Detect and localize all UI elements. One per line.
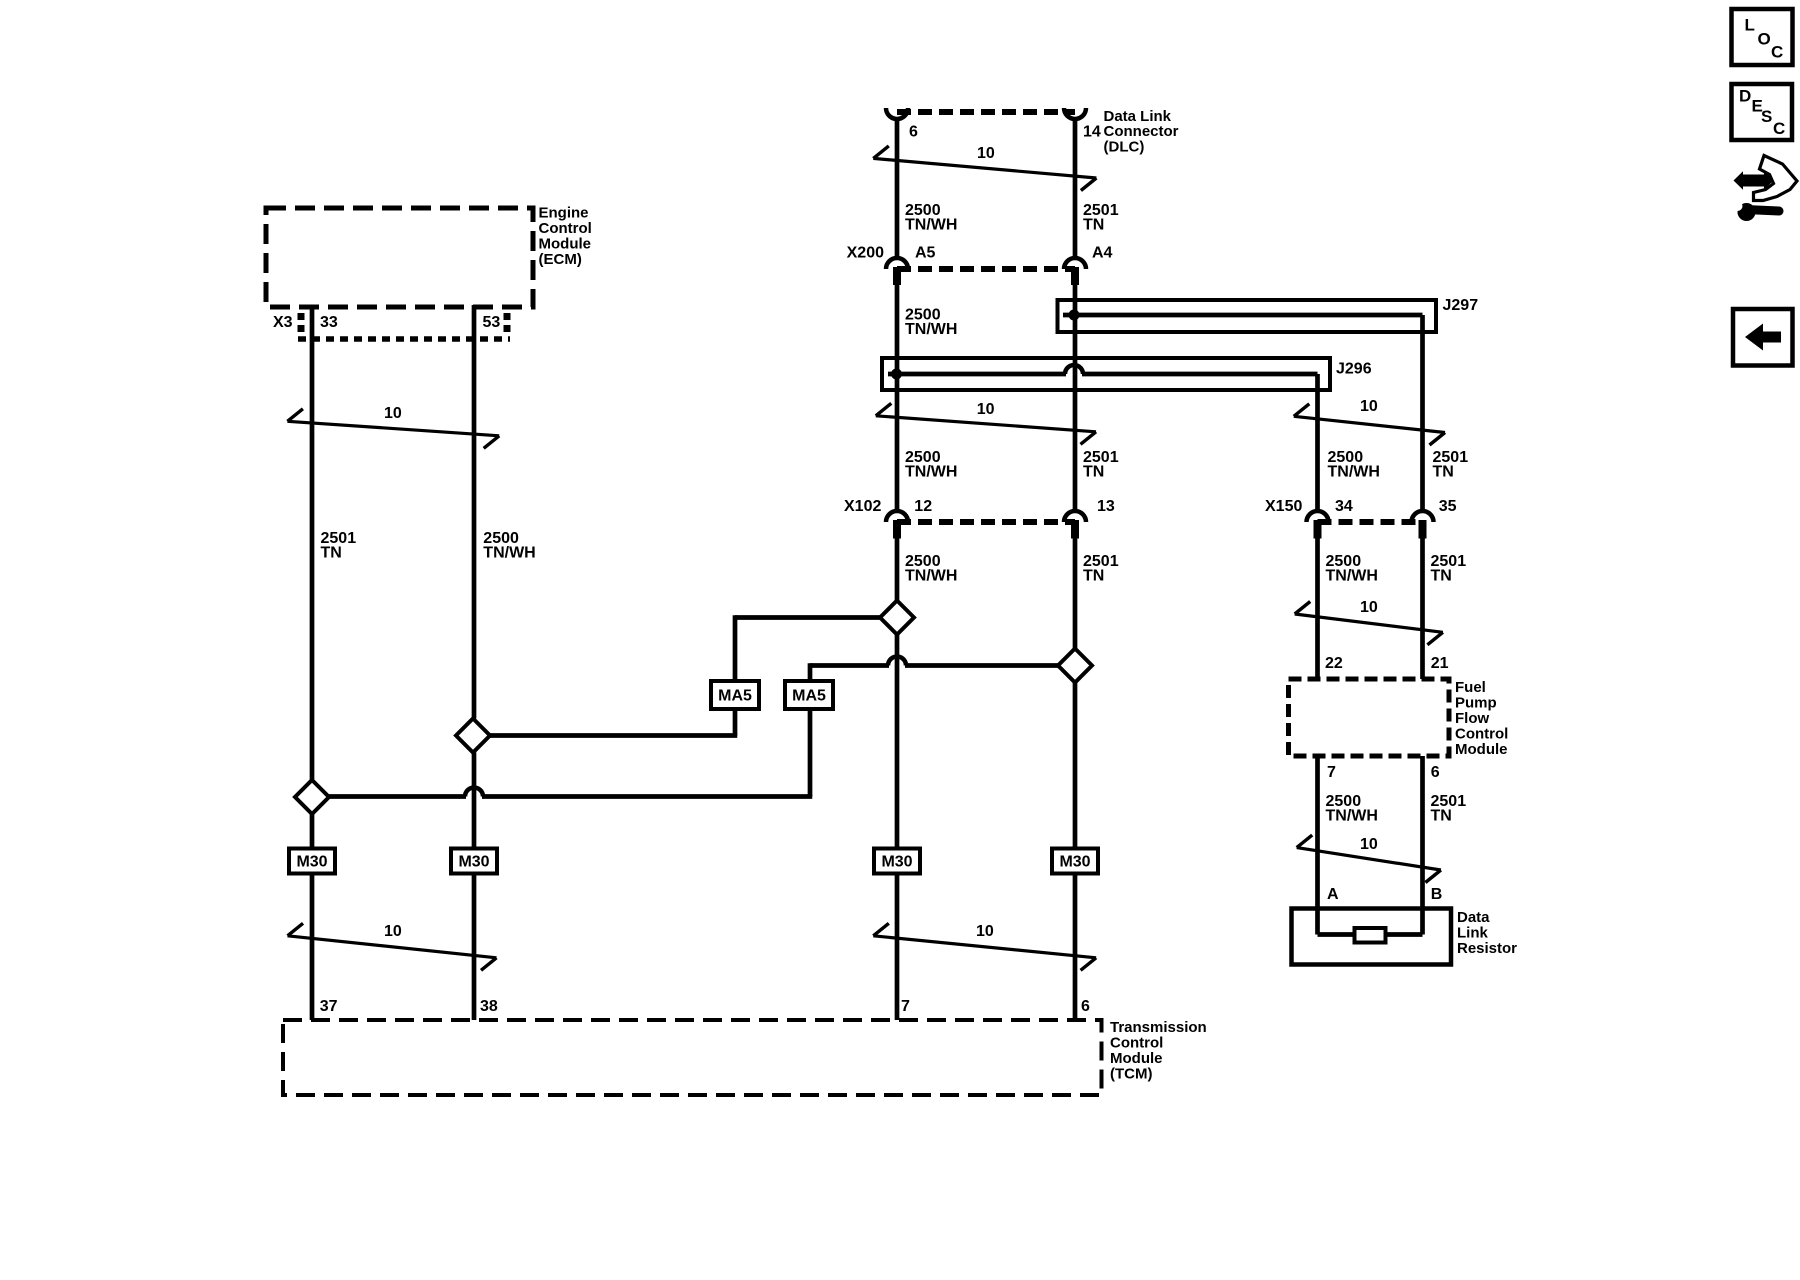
label X200 [847,245,884,262]
wire 2501 TN from ECM pin 33 down [310,305,315,780]
icon: wiring tool (arrows and wrench) [1733,156,1798,222]
svg-text:X150: X150 [1265,498,1302,515]
X150 terminal 35 [1412,511,1434,538]
module: Transmission Control Module box [283,1020,1102,1095]
svg-text:X102: X102 [844,498,881,515]
wire 2501 TN X150-35 to FPFCM 21 [1420,539,1425,680]
wire-gauge crossing arrow below DLC [873,145,1096,191]
wire col2 M30 to TCM 38 [472,874,477,1021]
svg-text:TN/WH: TN/WH [483,545,535,562]
icon: back arrow button [1733,309,1793,366]
svg-text:33: 33 [320,314,338,331]
svg-text:TN: TN [1431,808,1452,825]
X150 terminal 34 [1307,511,1329,538]
wire label 2501 TN (col6 row4) [1431,553,1467,585]
svg-text:10: 10 [1360,599,1378,616]
svg-text:M30: M30 [458,854,489,871]
svg-text:TN/WH: TN/WH [1326,808,1378,825]
svg-text:10: 10 [976,923,994,940]
wire-gauge crossing arrow FPFCM to resistor [1297,835,1441,882]
svg-text:10: 10 [1360,398,1378,415]
svg-text:22: 22 [1325,655,1343,672]
pin 34 label [1335,498,1353,515]
svg-text:A4: A4 [1092,245,1113,262]
svg-text:TN: TN [321,545,342,562]
connector M30 col2 [451,849,497,874]
svg-text:37: 37 [320,998,338,1015]
wire 2500 TN/WH X150-34 to FPFCM 22 [1315,539,1320,680]
wire-gauge crossing arrow above TCM right [873,923,1096,970]
splice pack J296 box [882,358,1330,390]
pin 6 label (TCM) [1081,998,1090,1015]
svg-text:TN: TN [1083,217,1104,234]
svg-text:C: C [1773,119,1785,138]
icon: DESC button [1732,84,1793,140]
component: Data Link Resistor box [1292,909,1452,965]
svg-text:J297: J297 [1443,297,1479,314]
label J297 [1443,297,1479,314]
pin 6 label [909,124,918,141]
svg-text:TN/WH: TN/WH [1326,568,1378,585]
wire label 2501 TN (col6 row5) [1431,793,1467,825]
svg-text:6: 6 [1081,998,1090,1015]
svg-text:TN: TN [1431,568,1452,585]
DLC terminal pin 6 [886,108,908,119]
pin 37 label [320,998,338,1015]
connector X200 dashed line [897,266,1075,272]
label: Data Link Connector (DLC) [1104,108,1179,155]
wire 2500 TN/WH from ECM pin 53 down [472,305,477,719]
svg-text:A5: A5 [915,245,936,262]
svg-text:10: 10 [384,405,402,422]
wire label 2501 TN (col6 row3) [1433,449,1469,481]
wire 2500 TN/WH X200 to X102 [895,285,900,511]
svg-text:Module: Module [1455,741,1508,758]
wire label 2500 TN/WH (col5 row4) [1326,553,1378,585]
svg-text:C: C [1771,43,1783,62]
svg-text:S: S [1761,107,1772,126]
svg-text:Fuel: Fuel [1455,679,1486,696]
pin 6 label (FPFCM) [1431,764,1440,781]
wire col3 M30 to TCM 7 [895,874,900,1021]
wire col4 M30 to TCM 6 [1073,874,1078,1021]
wire col1 M30 to TCM 37 [310,874,315,1021]
pin 7 label (TCM) [901,998,910,1015]
svg-text:TN: TN [1083,464,1104,481]
svg-text:D: D [1739,87,1751,106]
pin A4 label [1092,245,1113,262]
svg-text:TN/WH: TN/WH [905,568,957,585]
pin B label [1431,886,1443,903]
wire-gauge crossing arrow J to X150 [1294,398,1445,445]
connector X150 dashed line [1318,519,1423,525]
wire col2 splice to M30 [472,753,477,849]
wire col3 splice to M30 [895,635,900,849]
wire label 2500 TN/WH (col3 row2) [905,307,957,339]
splice diamond on col1 [295,780,329,814]
svg-text:Control: Control [1110,1035,1163,1052]
splice diamond on col2 [456,719,490,753]
wire 2500 TN/WH J296 to X150 [1315,374,1320,511]
connector X102 dashed line [897,519,1075,525]
wire col4 splice to M30 [1073,683,1078,849]
wire 2500 TN/WH FPFCM-7 to resistor A [1315,756,1320,935]
svg-text:TN/WH: TN/WH [1328,464,1380,481]
splice diamond on col4 [1058,649,1092,683]
splice pack J297 box [1058,300,1437,332]
svg-text:35: 35 [1439,498,1457,515]
svg-text:Control: Control [1455,726,1508,743]
resistor element R [1355,928,1386,943]
svg-text:O: O [1758,30,1771,49]
wire 2501 TN DLC14 to X200 A4 [1073,118,1078,259]
svg-text:Pump: Pump [1455,695,1497,712]
wire-gauge crossing arrow X150 to FPFCM [1295,599,1443,645]
wire label 2501 TN (col4 row4) [1083,553,1119,585]
wire label 2501 TN (col4 row1) [1083,202,1119,234]
svg-text:TN/WH: TN/WH [905,217,957,234]
connector M30 col1 [289,849,335,874]
svg-text:(TCM): (TCM) [1110,1066,1152,1083]
svg-text:X200: X200 [847,245,884,262]
junction dot J297 [1069,310,1080,321]
svg-text:12: 12 [914,498,932,515]
svg-text:M30: M30 [1059,854,1090,871]
label X3 [273,314,293,331]
svg-text:Transmission: Transmission [1110,1019,1207,1036]
svg-text:7: 7 [901,998,910,1015]
svg-text:Resistor: Resistor [1457,940,1517,957]
wire 2501 TN X200 to X102 [1073,285,1078,511]
pin A5 label [915,245,936,262]
X102 terminal 12 [886,511,908,539]
connector M30 col4 [1052,849,1098,874]
svg-text:MA5: MA5 [792,688,826,705]
icon: LOC button [1732,9,1793,65]
wire label 2500 TN/WH (col3 row3) [905,449,957,481]
wire label 2500 TN/WH (col3 row4) [905,553,957,585]
link wire col3-splice to col2-splice via MA5 [490,615,880,735]
pin 35 label [1439,498,1457,515]
pin 14 label [1083,124,1101,141]
svg-text:13: 13 [1097,498,1115,515]
connector X3 band [298,313,510,339]
svg-text:(ECM): (ECM) [539,251,582,268]
pin 22 label [1325,655,1343,672]
svg-text:Module: Module [539,236,592,253]
pin 7 label (FPFCM) [1327,764,1336,781]
connector MA5 (left) [711,681,759,709]
wire-gauge crossing arrow X200 to X102 [876,401,1096,444]
label X150 [1265,498,1302,515]
pin A label [1327,886,1339,903]
svg-text:6: 6 [1431,764,1440,781]
junction dot J296 [891,369,902,380]
wire label 2500 TN/WH (col5 row3) [1328,449,1380,481]
label: Fuel Pump Flow Control Module [1455,679,1508,758]
module: Fuel Pump Flow Control Module box [1289,679,1450,756]
svg-text:J296: J296 [1336,361,1372,378]
wire-gauge crossing arrow below ECM [287,405,499,448]
svg-text:Module: Module [1110,1050,1163,1067]
pin 13 label [1097,498,1115,515]
svg-text:MA5: MA5 [718,688,752,705]
label: Engine Control Module (ECM) [539,205,592,269]
connector: Data Link Connector dashed line [897,109,1075,115]
X200 terminal A4 [1064,258,1086,285]
svg-text:Control: Control [539,220,592,237]
svg-text:10: 10 [977,401,995,418]
svg-text:Engine: Engine [539,205,589,222]
pin 33 [320,314,338,331]
connector M30 col3 [874,849,920,874]
wire 2501 TN FPFCM-6 to resistor B [1420,756,1425,935]
svg-text:A: A [1327,886,1339,903]
svg-text:(DLC): (DLC) [1104,138,1145,155]
wire 2501 TN J297 to X150 [1420,315,1425,511]
svg-text:X3: X3 [273,314,293,331]
wire label 2501 TN (left) [321,530,357,562]
splice pack J296 bus wire with hop [888,365,1318,374]
splice diamond on col3 [880,601,914,635]
svg-text:M30: M30 [296,854,327,871]
svg-text:Flow: Flow [1455,710,1489,727]
svg-text:14: 14 [1083,124,1101,141]
wire col1 splice to M30 [310,814,315,849]
svg-text:34: 34 [1335,498,1353,515]
wire 2500 TN/WH DLC6 to X200 A5 [895,118,900,259]
svg-text:B: B [1431,886,1443,903]
X102 terminal 13 [1064,511,1086,539]
svg-text:21: 21 [1431,655,1449,672]
svg-text:10: 10 [384,923,402,940]
svg-text:10: 10 [977,145,995,162]
wire label 2501 TN (col4 row3) [1083,449,1119,481]
label J296 [1336,361,1372,378]
module: Engine Control Module (ECM) box [266,208,533,307]
svg-text:7: 7 [1327,764,1336,781]
svg-text:TN: TN [1083,568,1104,585]
wire 2501 TN X102-13 down [1073,539,1078,649]
svg-text:TN: TN [1433,464,1454,481]
DLC terminal pin 14 [1064,108,1086,119]
wire label 2500 TN/WH (col5 row5) [1326,793,1378,825]
wire-gauge crossing arrow above TCM left [288,923,497,970]
pin 53 [483,314,501,331]
wire 2500 TN/WH X102-12 down [895,539,900,601]
svg-text:Link: Link [1457,925,1488,942]
pin 21 label [1431,655,1449,672]
label: Data Link Resistor [1457,909,1517,957]
resistor internal bus [1318,932,1423,937]
wire label 2500 TN/WH (left) [483,530,535,562]
label X102 [844,498,881,515]
X200 terminal A5 [886,258,908,285]
svg-text:6: 6 [909,124,918,141]
connector MA5 (right) [785,681,833,709]
link wire col4-splice to col1-splice via MA5 [329,657,1058,797]
svg-text:TN/WH: TN/WH [905,464,957,481]
label: Transmission Control Module (TCM) [1110,1019,1207,1083]
pin 38 label [480,998,498,1015]
svg-text:53: 53 [483,314,501,331]
wire label 2500 TN/WH (col3 row1) [905,202,957,234]
svg-text:L: L [1745,16,1755,35]
pin 12 label [914,498,932,515]
svg-text:TN/WH: TN/WH [905,321,957,338]
splice pack J297 bus wire [1063,313,1423,318]
svg-text:38: 38 [480,998,498,1015]
svg-text:Data: Data [1457,909,1490,926]
svg-text:M30: M30 [881,854,912,871]
svg-text:10: 10 [1360,836,1378,853]
